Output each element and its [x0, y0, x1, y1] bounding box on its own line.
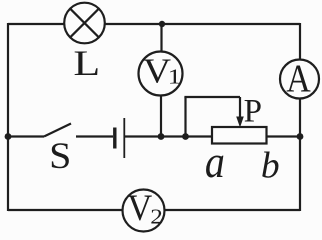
svg-text:A: A [286, 56, 311, 100]
wire resistor to right [267, 135, 301, 137]
wire bottom-right horizontal [165, 209, 301, 211]
svg-text:P: P [244, 93, 262, 129]
wire right vertical lower [299, 98, 301, 211]
potentiometer P body [212, 127, 267, 144]
svg-text:V: V [127, 187, 152, 228]
wire middle-left to switch [8, 135, 44, 137]
wire top-right horizontal [105, 23, 300, 25]
wiper arrowhead [236, 117, 244, 128]
svg-text:2: 2 [150, 205, 163, 229]
wire top-left horizontal [8, 23, 65, 25]
wire V1 branch lower [160, 96, 162, 137]
voltmeter V2 circle [123, 190, 165, 232]
wire wiper horizontal [184, 96, 240, 98]
node: wiper junction [182, 133, 189, 140]
svg-text:1: 1 [168, 65, 182, 88]
voltmeter V1 circle [139, 52, 183, 96]
lamp L symbol [64, 3, 105, 44]
wire bottom-left horizontal [8, 209, 123, 211]
node: left junction [5, 133, 12, 140]
wire switch to battery [76, 135, 113, 137]
battery cell: long thin plate (positive) [123, 118, 125, 158]
wire V1 branch upper [160, 24, 162, 52]
switch S blade [44, 124, 71, 137]
svg-text:S: S [49, 136, 71, 176]
wire battery to resistor [125, 135, 212, 137]
battery cell: short thick plate (negative) [113, 128, 116, 149]
node b junction right [297, 133, 304, 140]
ammeter A circle [280, 60, 319, 99]
svg-text:L: L [73, 43, 100, 83]
wire left vertical [7, 23, 9, 211]
node: top junction [159, 21, 165, 27]
wire wiper arrow stem [239, 97, 241, 117]
wire wiper vertical from node [184, 97, 186, 137]
svg-text:b: b [261, 145, 280, 186]
wire right vertical upper [299, 23, 301, 60]
svg-text:a: a [205, 138, 225, 188]
node: battery/V1 junction [158, 133, 165, 140]
